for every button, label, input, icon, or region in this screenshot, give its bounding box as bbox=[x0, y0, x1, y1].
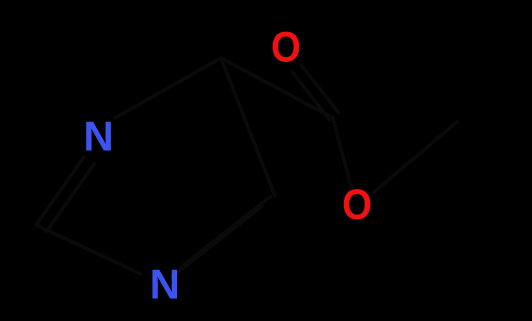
double bond C=O1 (carbonyl) bbox=[293, 73, 330, 120]
svg-text:N: N bbox=[150, 261, 180, 308]
double bond C4=N3 bbox=[181, 197, 271, 268]
svg-text:O: O bbox=[342, 181, 372, 229]
bond C5-C4 bbox=[221, 58, 275, 196]
bond O2-CH3 (methyl) bbox=[374, 122, 457, 192]
double bond C2=N1 bbox=[36, 157, 84, 225]
bond N3-C2 bbox=[36, 225, 141, 274]
bond C5-C(=O) bbox=[221, 58, 333, 118]
bond C-O2 (ester oxygen) bbox=[333, 118, 352, 189]
svg-text:O: O bbox=[271, 23, 301, 71]
bond N1-C5 bbox=[115, 58, 221, 118]
svg-text:N: N bbox=[83, 113, 113, 160]
